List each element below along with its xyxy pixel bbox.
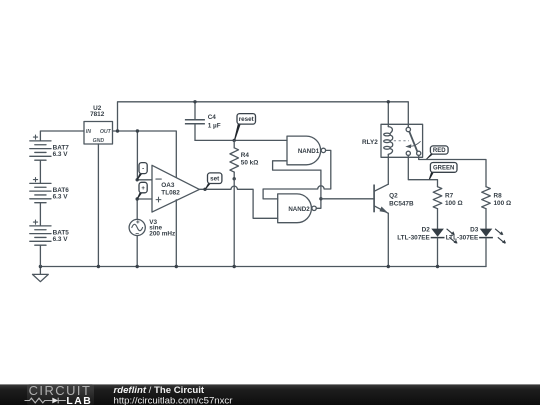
relay armature: [409, 132, 417, 152]
svg-text:50 kΩ: 50 kΩ: [241, 160, 259, 167]
wire GREEN net: relay NC to R7: [408, 155, 437, 186]
svg-text:Q2: Q2: [389, 192, 398, 199]
relay switch common: [406, 127, 410, 131]
svg-text:6.3 V: 6.3 V: [53, 236, 69, 243]
svg-text:LTL-307EE: LTL-307EE: [397, 235, 430, 242]
LED D3 LTL-307EE: [480, 229, 493, 237]
battery BAT6 6.3V: [30, 182, 51, 184]
battery BAT5 6.3V: [30, 225, 51, 227]
svg-text:NAND2: NAND2: [288, 206, 310, 213]
wire D2 to ground: [437, 238, 439, 266]
voltage regulator U2 7812: [84, 122, 113, 145]
svg-text:LAB: LAB: [66, 396, 92, 405]
svg-text:GND: GND: [93, 138, 105, 144]
resistor R4 50k: [233, 140, 235, 147]
wire top 12V rail: [118, 102, 409, 131]
wire NAND1 input B from NAND2 output: [273, 161, 321, 170]
svg-text:+: +: [141, 186, 145, 192]
gate NAND1: [287, 136, 321, 165]
resistor R8 100: [482, 187, 491, 209]
flag reset: [234, 123, 241, 140]
flag set: [205, 183, 212, 189]
ground: [33, 267, 49, 282]
flag plus: [137, 192, 143, 199]
svg-text:6.3 V: 6.3 V: [53, 194, 69, 201]
svg-text:OA3: OA3: [161, 182, 175, 189]
svg-text:OUT: OUT: [100, 129, 112, 135]
flag GREEN: [429, 171, 435, 179]
node plus input: [136, 197, 139, 200]
source V3 sine 200mHz: [129, 219, 145, 235]
gate NAND2: [278, 194, 312, 223]
LED D2 LTL-307EE: [431, 229, 444, 237]
svg-text:C4: C4: [208, 114, 217, 121]
svg-text:rdeflint / The Circuit: rdeflint / The Circuit: [114, 385, 205, 396]
capacitor C4 1uF: [194, 102, 196, 120]
relay RLY2: [381, 124, 423, 157]
wire D3 to ground: [485, 238, 487, 266]
wire op-amp plus input: [137, 199, 152, 219]
node reset/R4: [233, 139, 236, 142]
wire R4 to ground rail: [233, 179, 235, 267]
wire set net: op-amp out to NAND2 input B (hops over R4 wire): [199, 186, 277, 218]
svg-text:100 Ω: 100 Ω: [494, 200, 512, 207]
relay coil: [388, 127, 392, 133]
svg-text:R7: R7: [445, 192, 454, 199]
wire U2 GND to ground rail: [97, 144, 99, 267]
wire U2 IN from battery: [40, 131, 84, 141]
svg-text:D3: D3: [470, 226, 479, 233]
relay arrow: [411, 141, 421, 146]
svg-text:RLY2: RLY2: [362, 139, 378, 146]
logo diode: [52, 398, 58, 404]
wire V3 to ground rail: [136, 236, 138, 267]
svg-text:GREEN: GREEN: [433, 166, 454, 172]
wire reset net: C4 to NAND1 input A: [195, 139, 287, 141]
wire coil riser from rail: [387, 102, 389, 127]
svg-text:D2: D2: [422, 226, 431, 233]
relay throw NC: [406, 151, 410, 155]
wire Q2 emitter to ground: [387, 213, 389, 266]
relay dashed link: [394, 140, 409, 142]
svg-text:LTL-307EE: LTL-307EE: [446, 235, 479, 242]
svg-text:NAND1: NAND1: [298, 148, 320, 155]
relay throw NO: [417, 151, 421, 155]
wire ground rail: [40, 266, 486, 268]
node OUT junctions: [116, 129, 119, 132]
wire op-amp V- pin to ground: [175, 200, 177, 267]
svg-text:R4: R4: [241, 152, 250, 159]
battery BAT7 6.3V: [30, 140, 51, 142]
svg-text:R8: R8: [494, 192, 503, 199]
svg-text:RED: RED: [433, 148, 446, 154]
wire NAND2 output up to NAND1 input B: [316, 170, 321, 208]
wire Q to transistor base: [321, 198, 374, 200]
wire RED net: relay NO to R8: [419, 155, 486, 186]
svg-text:BC547B: BC547B: [389, 200, 414, 207]
svg-text:reset: reset: [239, 116, 255, 123]
svg-text:http://circuitlab.com/c57nxcr: http://circuitlab.com/c57nxcr: [114, 395, 234, 405]
op-amp OA3 TL082: [152, 165, 199, 212]
flag minus: [137, 173, 143, 180]
wire U2 OUT to op-amp V+ riser: [113, 131, 177, 177]
svg-text:6.3 V: 6.3 V: [53, 151, 69, 158]
svg-text:7812: 7812: [90, 111, 105, 118]
svg-text:100 Ω: 100 Ω: [445, 200, 463, 207]
wire BAT5 to ground: [39, 245, 41, 266]
node set: [203, 188, 206, 191]
svg-text:set: set: [210, 175, 220, 182]
wire OUT drop to op-amp minus input: [137, 131, 152, 180]
svg-text:-: -: [142, 166, 144, 172]
node minus input: [136, 178, 139, 181]
transistor Q2 BC547B: [373, 185, 375, 213]
wire NAND1 output to NAND2 input A (hops over cross wire): [263, 150, 331, 199]
wire BAT7-BAT6: [39, 160, 41, 183]
flag RED: [426, 153, 435, 159]
logo resistor: [25, 398, 53, 403]
node Q output branch: [319, 197, 322, 200]
svg-text:TL082: TL082: [161, 190, 180, 197]
svg-text:IN: IN: [86, 129, 91, 135]
svg-text:200 mHz: 200 mHz: [149, 231, 175, 238]
svg-text:1 µF: 1 µF: [208, 122, 221, 129]
resistor R7 100: [433, 187, 442, 209]
wire Q2 collector to relay coil: [387, 154, 389, 184]
wire BAT6-BAT5: [39, 203, 41, 226]
